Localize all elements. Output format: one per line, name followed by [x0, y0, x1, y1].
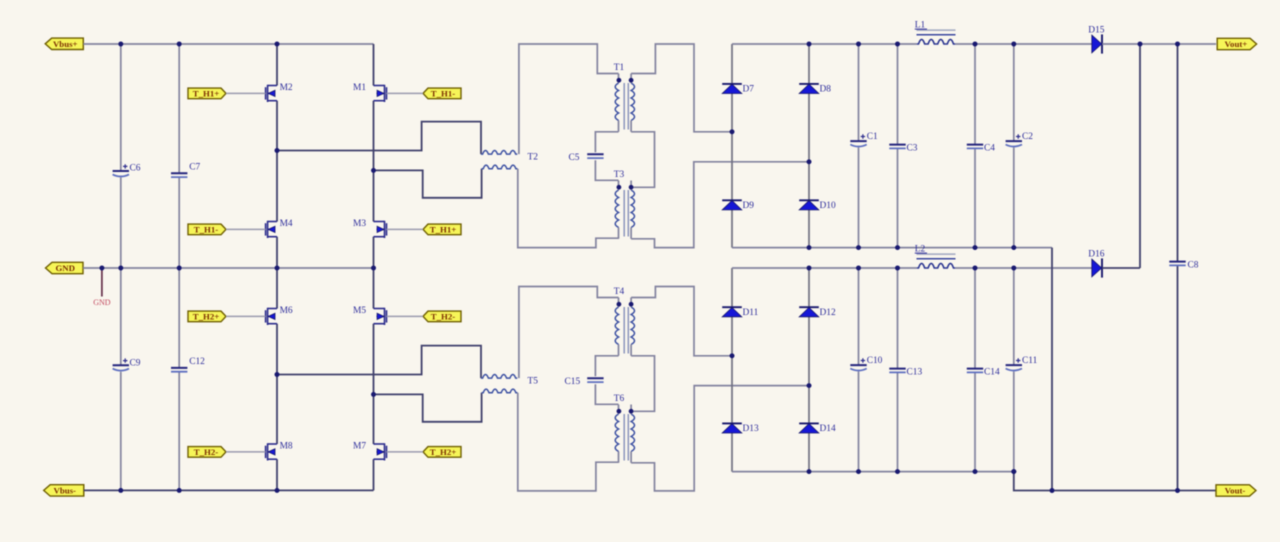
svg-text:D11: D11 — [743, 308, 759, 318]
wire C7 column — [178, 44, 180, 173]
wire T3 bottom-right to D8 midpoint — [631, 162, 809, 248]
junction node lower bridge left mid — [275, 372, 280, 377]
transformer T1 pins — [618, 74, 620, 84]
capacitor C3 — [897, 44, 899, 144]
transistor M7 — [374, 443, 385, 445]
transformer T6 pins — [618, 405, 620, 415]
diode D16 — [1092, 259, 1102, 277]
wire T2 upper to T1 top — [519, 44, 619, 154]
junction node upper bridge right mid — [371, 168, 376, 173]
junction dots gnd rail — [100, 266, 105, 271]
svg-text:C4: C4 — [984, 143, 995, 153]
rail rectifier2 bottom — [732, 471, 1014, 473]
transistor M3 — [374, 221, 385, 223]
port T_H1+ (M2 gate) — [188, 88, 226, 99]
port T_H1- (M4 gate) — [188, 224, 226, 235]
svg-text:M2: M2 — [280, 83, 293, 93]
inductor T2 lower winding — [482, 165, 518, 169]
transformer T6 dots — [617, 409, 622, 414]
svg-text:T3: T3 — [614, 170, 625, 180]
svg-text:T_H2-: T_H2- — [431, 312, 456, 322]
svg-text:C9: C9 — [130, 359, 141, 369]
diode D8 — [799, 83, 819, 85]
wire C8 column — [1177, 44, 1179, 261]
wire M6-M8 column — [276, 268, 278, 309]
inductor L1 — [917, 39, 955, 44]
svg-text:T1: T1 — [614, 63, 625, 73]
wire T4 bottom-left to C15 — [595, 356, 618, 376]
diode D12 — [799, 306, 819, 308]
svg-text:C11: C11 — [1022, 356, 1038, 366]
svg-text:D9: D9 — [743, 201, 755, 211]
svg-text:D8: D8 — [820, 85, 832, 95]
wire C5 to T3 top-left — [595, 160, 618, 180]
power ground GND — [101, 268, 103, 297]
transformer T1 right winding — [631, 83, 634, 121]
transformer T1 core — [623, 83, 625, 130]
svg-text:T_H1-: T_H1- — [194, 225, 219, 235]
svg-text:GND: GND — [55, 263, 75, 273]
wire T2 lower to loop bottom — [518, 169, 619, 248]
wire M1-M3 column — [373, 44, 375, 86]
port Vout- — [1216, 485, 1256, 496]
svg-text:T_H2+: T_H2+ — [430, 447, 457, 457]
wire C15 to T6 top-left — [595, 384, 618, 404]
svg-text:C14: C14 — [984, 367, 1000, 377]
port GND — [46, 262, 84, 273]
svg-text:D15: D15 — [1088, 26, 1104, 36]
svg-text:C15: C15 — [565, 377, 581, 387]
svg-text:D13: D13 — [743, 424, 759, 434]
svg-text:T2: T2 — [528, 153, 539, 163]
diode D15 — [1092, 35, 1102, 53]
capacitor C8 — [1169, 261, 1185, 263]
diode D13 — [722, 422, 742, 424]
svg-text:M5: M5 — [353, 306, 366, 316]
port T_H2- (M8 gate) — [188, 447, 226, 458]
capacitor C5 — [587, 153, 603, 155]
wire D16 tail — [1102, 267, 1140, 269]
svg-text:Vout+: Vout+ — [1225, 39, 1248, 49]
junction D10 bottom — [807, 245, 812, 250]
junction D12 mid tap — [807, 383, 812, 388]
inductor L2 — [917, 263, 955, 268]
rail rectifier1 bottom — [732, 247, 1052, 249]
svg-text:Vbus-: Vbus- — [54, 486, 77, 496]
svg-text:C1: C1 — [867, 132, 878, 142]
wire T4 bottom-right to T6 top-right — [631, 356, 654, 412]
rail GND — [102, 267, 374, 269]
transformer T1 left winding — [615, 83, 618, 121]
inductor T2 upper winding — [481, 151, 517, 155]
wire lower bridge mid to T5 lower — [374, 393, 482, 422]
wire T4 top-right to D11 midpoint — [631, 287, 732, 356]
rail rectifier2 top — [732, 267, 917, 269]
transformer T3 left winding — [615, 190, 618, 228]
svg-text:C5: C5 — [569, 153, 580, 163]
wire C12 column — [178, 268, 180, 368]
svg-text:T_H1+: T_H1+ — [430, 225, 457, 235]
capacitor C14 — [974, 268, 976, 368]
wire T1 top-right to D7 midpoint — [631, 44, 732, 132]
transformer T6 core — [623, 414, 625, 461]
transformer T6 left winding — [615, 414, 618, 452]
svg-text:M7: M7 — [353, 442, 366, 452]
transformer T6 right winding — [631, 414, 634, 452]
port T_H2+ (M7 gate) — [423, 447, 461, 458]
svg-text:C7: C7 — [189, 163, 200, 173]
junction D8 top — [807, 42, 812, 47]
svg-text:D12: D12 — [820, 308, 836, 318]
wire C9 column — [120, 268, 122, 365]
svg-text:T5: T5 — [528, 377, 539, 387]
junction D12 top — [807, 266, 812, 271]
transistor M8 — [268, 443, 277, 445]
wire rectifier lower column 2 — [808, 268, 810, 472]
svg-text:C3: C3 — [907, 143, 918, 153]
transformer T3 dots — [617, 185, 622, 190]
capacitor C1 — [858, 44, 860, 141]
svg-text:D16: D16 — [1088, 250, 1104, 260]
svg-text:T_H2+: T_H2+ — [193, 312, 220, 322]
svg-text:T_H1-: T_H1- — [431, 89, 456, 99]
transformer T1 dots — [617, 78, 622, 83]
diode D14 — [799, 422, 819, 424]
svg-text:C2: C2 — [1022, 132, 1033, 142]
wire T1 bottom-right to T3 top-right — [631, 132, 654, 188]
svg-text:Vbus+: Vbus+ — [53, 39, 78, 49]
junction node lower bridge right mid — [371, 392, 376, 397]
svg-text:D14: D14 — [820, 424, 836, 434]
transformer T4 right winding — [631, 307, 634, 345]
diode D10 — [799, 199, 819, 201]
svg-text:C12: C12 — [189, 357, 205, 367]
diode D11 — [722, 306, 742, 308]
capacitor C9 — [113, 364, 129, 366]
svg-text:M4: M4 — [280, 219, 293, 229]
wire D16 cathode riser — [1139, 44, 1141, 268]
svg-text:M8: M8 — [280, 442, 293, 452]
transistor M6 — [268, 308, 277, 310]
diode D9 — [722, 199, 742, 201]
junction D11 mid tap — [730, 353, 735, 358]
wire M2-M4 column — [276, 44, 278, 86]
wire rect2 return to Vout- — [1014, 472, 1216, 491]
transformer T4 dots — [617, 302, 622, 307]
svg-text:M1: M1 — [353, 83, 366, 93]
svg-text:T_H2-: T_H2- — [194, 447, 219, 457]
junction D8 mid tap — [807, 159, 812, 164]
svg-text:D10: D10 — [820, 201, 836, 211]
wire upper bridge mid to T2 lower — [374, 169, 482, 198]
capacitor C10 — [858, 268, 860, 365]
capacitor C4 — [974, 44, 976, 144]
junction dots top rail — [118, 42, 123, 47]
rail Vbus+ top — [121, 43, 374, 45]
capacitor C11 — [1013, 268, 1015, 365]
wire T6 bottom-right to D12 midpoint — [631, 386, 809, 491]
capacitor C2 — [1013, 44, 1015, 141]
wire rectifier lower column 1 — [731, 268, 733, 472]
capacitor C6 — [113, 170, 129, 172]
transformer T4 core — [623, 307, 625, 354]
svg-text:T6: T6 — [614, 394, 625, 404]
svg-text:C6: C6 — [130, 164, 141, 174]
wire M5-M7 column — [373, 268, 375, 309]
rail rectifier1 top — [732, 43, 917, 45]
port T_H1- (M1 gate) — [423, 88, 461, 99]
rail Vbus- — [84, 489, 374, 491]
port T_H2- (M5 gate) — [423, 311, 461, 322]
wire rectifier upper column 2 — [808, 44, 810, 248]
junction dots overlay — [118, 42, 123, 47]
junction node upper bridge left mid — [275, 148, 280, 153]
port Vout+ — [1217, 38, 1256, 49]
wire D15 to Vout+ — [1102, 43, 1216, 45]
wire upper bridge mid to T2 upper — [277, 122, 481, 155]
port Vbus+ — [45, 38, 83, 49]
port Vbus- — [44, 485, 84, 496]
port T_H2+ (M6 gate) — [188, 311, 226, 322]
svg-text:GND: GND — [93, 298, 111, 307]
capacitor C12 — [171, 367, 187, 369]
transformer T4 left winding — [615, 307, 618, 345]
svg-text:Vout-: Vout- — [1225, 486, 1246, 496]
wire rectifier upper column 1 — [731, 44, 733, 248]
svg-text:M3: M3 — [353, 219, 366, 229]
svg-text:D7: D7 — [743, 85, 755, 95]
capacitor C13 — [897, 268, 899, 368]
transformer T4 pins — [618, 298, 620, 308]
transistor M1 — [374, 85, 385, 87]
wire T5 lower to loop bottom — [518, 393, 619, 491]
transistor M2 — [268, 85, 277, 87]
svg-text:C13: C13 — [907, 367, 923, 377]
inductor T5 lower winding — [482, 389, 518, 393]
transformer T3 right winding — [631, 190, 634, 228]
transistor M5 — [374, 308, 385, 310]
wire C6 column — [120, 44, 122, 171]
transformer T3 pins — [618, 181, 620, 191]
junction D7 mid tap — [730, 129, 735, 134]
capacitor C15 — [587, 377, 603, 379]
svg-text:C10: C10 — [867, 356, 883, 366]
wire lower bridge mid to T5 upper — [277, 346, 481, 379]
junction D14 bottom — [807, 469, 812, 474]
svg-text:M6: M6 — [280, 306, 293, 316]
svg-text:C8: C8 — [1188, 260, 1199, 270]
capacitor C7 — [171, 172, 187, 174]
port T_H1+ (M3 gate) — [423, 224, 461, 235]
wire rect1 return to Vout- — [1051, 248, 1053, 491]
inductor T5 upper winding — [481, 375, 517, 379]
svg-text:T_H1+: T_H1+ — [193, 89, 220, 99]
wire T5 upper to T4 top — [519, 287, 619, 379]
diode D7 — [722, 83, 742, 85]
transistor M4 — [268, 221, 277, 223]
wire T1 bottom-left to C5 — [595, 132, 618, 152]
svg-text:T4: T4 — [614, 287, 625, 297]
transformer T3 core — [623, 190, 625, 237]
junction dots vbus- rail — [118, 488, 123, 493]
